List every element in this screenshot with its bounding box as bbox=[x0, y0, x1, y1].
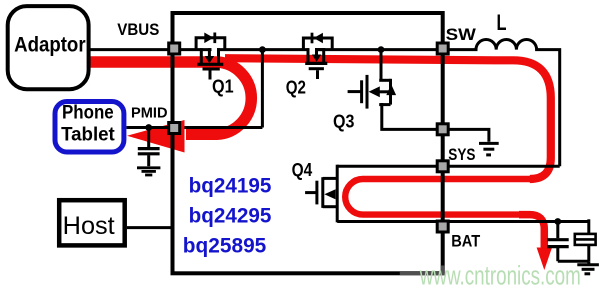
Host block bbox=[59, 200, 125, 245]
ground (PGND) bbox=[479, 143, 499, 155]
wire SYS line (Q4 drain through SYS pin to inductor output) bbox=[337, 165, 560, 168]
Phone/Tablet block bbox=[55, 102, 124, 153]
wire battery loop bottom bbox=[558, 260, 589, 263]
transistor Q1 with body diode bbox=[196, 33, 234, 97]
node: rail junction to PMID bbox=[259, 46, 266, 53]
arrowhead of current path A (down into battery) bbox=[537, 248, 552, 271]
svg-text:BAT: BAT bbox=[451, 232, 481, 251]
svg-text:Q4: Q4 bbox=[292, 159, 313, 180]
capacitor C1 (PMID cap) bbox=[138, 129, 160, 166]
wire Adaptor to VBUS pin bbox=[89, 48, 173, 51]
node: rail junction to Q3 bbox=[378, 46, 385, 53]
svg-text:bq24295: bq24295 bbox=[189, 205, 272, 228]
svg-text:Q2: Q2 bbox=[286, 77, 306, 98]
pin BAT bbox=[437, 221, 448, 232]
svg-text:Adaptor: Adaptor bbox=[14, 34, 86, 57]
wire BAT line (Q4 source through BAT pin to battery) bbox=[337, 220, 589, 223]
svg-text:SYS: SYS bbox=[448, 146, 475, 164]
svg-text:L: L bbox=[497, 10, 507, 35]
wire VBUS rail (segment 3, Q2 to SW pin) bbox=[315, 48, 440, 51]
pin PMID bbox=[169, 123, 180, 134]
gray section of IC border (bottom right, watermark fade) bbox=[400, 266, 443, 274]
svg-text:SW: SW bbox=[446, 25, 477, 44]
ground (battery) bbox=[577, 261, 599, 274]
svg-text:Q3: Q3 bbox=[333, 111, 354, 132]
inductor L bbox=[440, 39, 560, 166]
transistor Q4 bbox=[292, 159, 338, 222]
pin PGND bbox=[437, 124, 448, 135]
capacitor C2 (battery output cap) bbox=[547, 222, 569, 262]
node: PMID junction bbox=[145, 124, 152, 131]
arrowhead of current path B (into Phone/Tablet) bbox=[127, 120, 185, 153]
wire PMID pin to Phone/Tablet (drawn over arrow) bbox=[127, 126, 169, 129]
wire PGND pin to ground bbox=[445, 129, 489, 141]
wire VBUS rail inside IC (segment 1) bbox=[178, 48, 212, 51]
pin SYS bbox=[437, 161, 448, 172]
svg-text:Tablet: Tablet bbox=[61, 124, 115, 145]
current path B (VBUS U-turn to PMID) red flow arrow bbox=[91, 62, 252, 134]
wire VBUS rail (segment 2, Q1 to Q2) bbox=[217, 48, 309, 51]
svg-text:Host: Host bbox=[63, 212, 115, 240]
svg-text:bq24195: bq24195 bbox=[189, 175, 272, 198]
transistor Q3 bbox=[333, 75, 396, 132]
wire Q3 source down and right to PGND pin bbox=[382, 103, 440, 129]
ground (PMID cap) bbox=[137, 168, 160, 175]
svg-text:VBUS: VBUS bbox=[117, 21, 159, 39]
pin SW bbox=[437, 43, 448, 54]
wire junction down to PMID line bbox=[261, 50, 264, 128]
node: BAT output junction bbox=[554, 218, 561, 225]
svg-text:Q1: Q1 bbox=[212, 76, 234, 97]
charger IC body (bq24195/bq24295/bq25895) bbox=[173, 13, 443, 273]
IC part number labels bbox=[183, 175, 272, 258]
pin VBUS bbox=[169, 43, 180, 54]
svg-text:Phone: Phone bbox=[62, 103, 114, 124]
wire Host to IC bbox=[127, 226, 173, 229]
svg-text:bq25895: bq25895 bbox=[183, 234, 267, 257]
battery cell symbol bbox=[575, 219, 596, 261]
current path A (VBUS to SW, inductor, SYS, battery) red flow arrow bbox=[225, 58, 551, 248]
Adaptor block bbox=[8, 6, 89, 89]
wire IC left border segment (redrawn over arrow) bbox=[171, 135, 175, 158]
svg-text:www.cntronics.com: www.cntronics.com bbox=[419, 261, 581, 291]
wire PMID line inside IC bbox=[178, 126, 262, 129]
wire Q3 drain from rail junction bbox=[380, 50, 383, 81]
transistor Q2 with body diode bbox=[286, 33, 333, 98]
svg-text:PMID: PMID bbox=[131, 104, 168, 121]
